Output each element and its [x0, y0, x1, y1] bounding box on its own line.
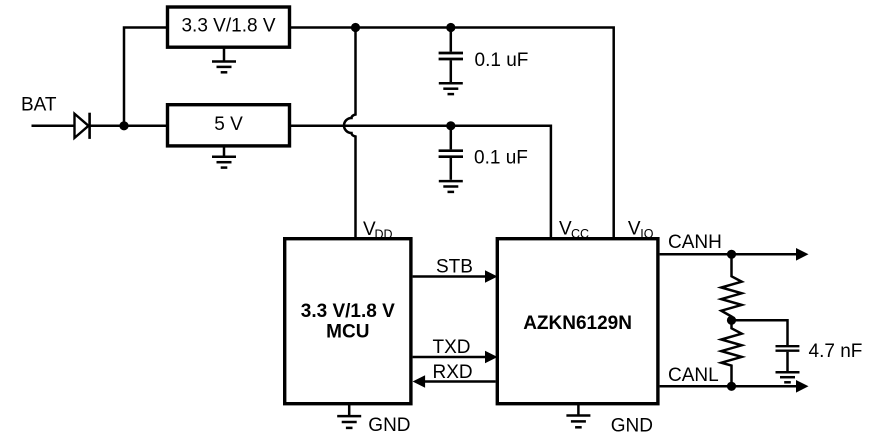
regulator 3.3 V/1.8 V: [168, 7, 290, 47]
svg-text:3.3 V/1.8 V: 3.3 V/1.8 V: [301, 301, 395, 322]
node: CANL termination tap: [727, 382, 736, 391]
signal CANL wire: [660, 385, 798, 388]
svg-text:CANL: CANL: [668, 365, 719, 386]
ground: MCU: [337, 405, 361, 428]
ground: C1: [439, 83, 463, 94]
arrowhead CANH to bus: [796, 248, 809, 261]
node: C1 tap on 3.3 V rail: [446, 23, 455, 32]
pin label VIO: [628, 219, 654, 242]
wire: BAT input to diode: [32, 125, 75, 128]
transceiver block AZKN6129N: [497, 239, 658, 404]
node: C2 tap on 5 V rail: [446, 121, 455, 130]
svg-text:MCU: MCU: [326, 322, 369, 343]
node: CANH termination tap: [727, 250, 736, 259]
capacitor C2 0.1 uF: [439, 126, 463, 180]
node: VDD tap on 3.3 V rail: [351, 23, 360, 32]
resistor R1 (CANH to split node): [721, 254, 741, 320]
svg-text:5 V: 5 V: [214, 114, 243, 135]
MCU block: 3.3 V/1.8 V MCU: [285, 239, 411, 404]
arrowhead STB into transceiver: [485, 270, 498, 283]
wire: junction up to 3.3 V regulator input: [124, 28, 167, 126]
signal TXD wire: [413, 356, 487, 359]
regulator 5 V: [168, 105, 290, 146]
capacitor C3 4.7 nF: [776, 346, 800, 371]
wire: VDD supply with hop over 5 V rail: [344, 28, 356, 239]
pin label VDD: [363, 219, 393, 242]
diode D1: [75, 113, 90, 139]
capacitor C1 0.1 uF: [439, 28, 463, 83]
resistor R2 (split node to CANL): [721, 320, 741, 386]
svg-text:RXD: RXD: [433, 362, 473, 383]
svg-text:BAT: BAT: [21, 95, 57, 116]
signal CANH wire: [660, 253, 798, 256]
signal RXD wire: [424, 380, 496, 383]
svg-text:0.1 uF: 0.1 uF: [474, 147, 528, 168]
wire: diode to 5 V regulator: [90, 125, 167, 128]
svg-text:GND: GND: [611, 416, 653, 437]
wire: 3.3 V rail to VIO: [290, 28, 614, 239]
ground: 5 V regulator: [212, 147, 236, 168]
svg-text:AZKN6129N: AZKN6129N: [523, 313, 632, 334]
ground: transceiver: [566, 405, 590, 427]
node: termination split: [727, 316, 736, 325]
ground: C3: [776, 372, 800, 382]
signal STB wire: [413, 275, 487, 278]
arrowhead TXD into transceiver: [485, 351, 498, 364]
pin label VCC: [559, 219, 589, 242]
svg-text:4.7 nF: 4.7 nF: [809, 341, 863, 362]
wire: split node to C3: [732, 320, 788, 345]
svg-text:TXD: TXD: [433, 337, 471, 358]
arrowhead RXD into MCU: [413, 375, 426, 388]
svg-text:CANH: CANH: [668, 232, 722, 253]
ground: C2: [439, 181, 463, 192]
svg-text:0.1 uF: 0.1 uF: [475, 50, 529, 71]
arrowhead CANL to bus: [796, 380, 809, 393]
svg-text:3.3 V/1.8 V: 3.3 V/1.8 V: [181, 15, 275, 36]
ground: 3.3 V/1.8 V regulator: [212, 49, 236, 73]
svg-text:V: V: [628, 219, 641, 240]
svg-text:GND: GND: [368, 415, 410, 436]
wire: 5 V rail to VCC: [290, 126, 551, 238]
svg-text:STB: STB: [436, 257, 473, 278]
node: battery junction: [119, 121, 128, 130]
